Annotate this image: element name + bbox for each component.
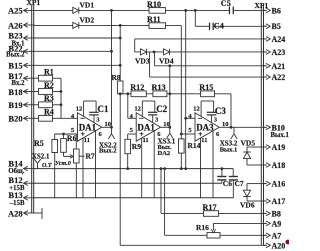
svg-text:C3: C3 xyxy=(215,106,226,116)
svg-text:Вых.2: Вых.2 xyxy=(99,148,117,155)
svg-text:B19: B19 xyxy=(8,100,22,110)
svg-text:VD1: VD1 xyxy=(80,1,95,10)
svg-text:12: 12 xyxy=(193,106,200,113)
svg-text:R6: R6 xyxy=(67,134,77,143)
svg-text:A9: A9 xyxy=(272,219,282,228)
svg-text:R10: R10 xyxy=(147,0,161,9)
svg-text:B23: B23 xyxy=(8,31,22,41)
svg-text:R11: R11 xyxy=(147,15,161,24)
svg-text:DA2: DA2 xyxy=(158,150,171,157)
svg-text:VD3: VD3 xyxy=(135,57,150,66)
svg-text:C1: C1 xyxy=(98,104,109,114)
svg-text:A23: A23 xyxy=(272,48,286,57)
svg-text:10: 10 xyxy=(105,121,112,128)
svg-text:12: 12 xyxy=(134,106,141,113)
svg-text:11: 11 xyxy=(84,137,90,144)
svg-text:О.Т: О.Т xyxy=(42,163,52,169)
svg-text:B5: B5 xyxy=(272,22,281,31)
svg-text:A7: A7 xyxy=(272,231,282,240)
svg-text:A25: A25 xyxy=(8,6,23,16)
svg-text:A21: A21 xyxy=(272,62,286,71)
svg-text:R4: R4 xyxy=(44,108,54,117)
svg-text:R3: R3 xyxy=(44,94,54,103)
svg-text:A16: A16 xyxy=(272,180,286,189)
svg-text:B14: B14 xyxy=(8,158,23,168)
svg-text:B18: B18 xyxy=(8,87,22,97)
svg-text:A19: A19 xyxy=(272,143,286,152)
svg-text:R12: R12 xyxy=(130,83,144,92)
svg-text:VD4: VD4 xyxy=(159,57,174,66)
svg-text:R2: R2 xyxy=(44,81,54,90)
svg-text:A24: A24 xyxy=(272,35,286,44)
svg-text:B20: B20 xyxy=(8,114,22,124)
svg-text:11: 11 xyxy=(201,137,207,144)
svg-text:A18: A18 xyxy=(272,161,286,170)
svg-text:C4: C4 xyxy=(214,21,224,30)
svg-text:Вых.2: Вых.2 xyxy=(6,52,25,59)
svg-text:Уст.0: Уст.0 xyxy=(55,161,71,167)
svg-text:11: 11 xyxy=(143,137,149,144)
svg-text:R14: R14 xyxy=(188,141,201,150)
svg-text:10: 10 xyxy=(222,121,229,128)
svg-text:Вых.1: Вых.1 xyxy=(220,146,238,153)
svg-text:R13: R13 xyxy=(152,83,166,92)
svg-text:R9: R9 xyxy=(132,142,141,151)
svg-text:B8: B8 xyxy=(272,209,281,218)
svg-text:A26: A26 xyxy=(8,20,23,30)
svg-text:R16: R16 xyxy=(196,223,209,232)
svg-text:VD6: VD6 xyxy=(240,200,255,209)
svg-text:VD2: VD2 xyxy=(80,16,95,25)
svg-text:A20: A20 xyxy=(272,241,286,250)
svg-text:12: 12 xyxy=(76,106,83,113)
svg-text:A28: A28 xyxy=(8,208,23,218)
svg-text:C7: C7 xyxy=(235,179,244,188)
svg-text:R8: R8 xyxy=(112,73,121,82)
svg-text:A22: A22 xyxy=(272,73,286,82)
svg-text:A17: A17 xyxy=(272,197,286,206)
svg-text:B13: B13 xyxy=(8,190,22,200)
svg-text:R1: R1 xyxy=(44,68,54,77)
svg-text:B12: B12 xyxy=(8,175,22,185)
svg-text:VD5: VD5 xyxy=(241,138,256,147)
svg-text:C5: C5 xyxy=(221,0,231,8)
svg-text:R5: R5 xyxy=(34,139,44,148)
svg-text:R17: R17 xyxy=(203,203,217,212)
svg-text:Вых.1: Вых.1 xyxy=(271,132,290,139)
svg-text:R7: R7 xyxy=(86,152,95,161)
svg-text:B6: B6 xyxy=(272,6,281,15)
svg-text:B15: B15 xyxy=(8,61,22,71)
svg-text:–15В: –15В xyxy=(9,200,25,207)
svg-text:R15: R15 xyxy=(199,83,213,92)
svg-text:C2: C2 xyxy=(156,104,167,114)
svg-text:XP1: XP1 xyxy=(27,0,41,7)
